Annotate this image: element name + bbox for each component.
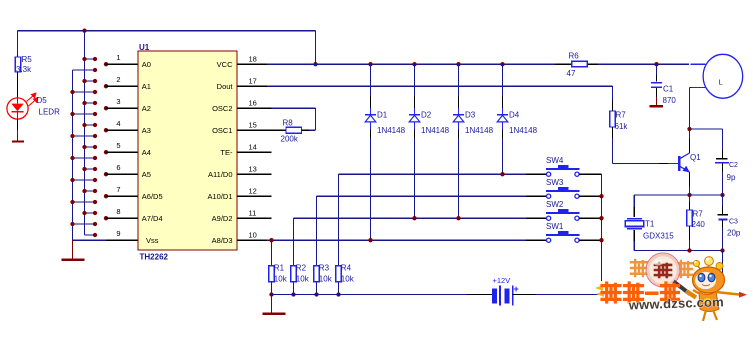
pin number 15	[249, 121, 257, 130]
node pin 5 junction	[104, 150, 108, 154]
node junction top rail to jumper column	[82, 28, 86, 32]
diode D2 1N4148	[409, 115, 420, 122]
svg-text:200k: 200k	[281, 135, 299, 144]
diode D1 1N4148	[365, 115, 376, 122]
wire pin 13 stub	[237, 173, 271, 175]
label 870 value of C1	[663, 96, 677, 105]
switch SW1	[526, 231, 602, 242]
wire pin 7 stub	[106, 195, 138, 197]
svg-text:D2: D2	[421, 111, 432, 120]
pin name OSC2	[212, 104, 232, 113]
wire TE pin 14	[237, 151, 271, 153]
svg-text:SW2: SW2	[546, 200, 564, 209]
wire OSC2 pin 16	[237, 108, 315, 130]
wire Q1 collector lead	[689, 129, 691, 153]
label C1	[663, 85, 674, 94]
label R7 bias	[616, 111, 627, 120]
svg-text:T1: T1	[645, 220, 655, 229]
label SW4	[546, 156, 564, 165]
svg-text:3.3k: 3.3k	[16, 65, 32, 74]
switch SW4	[526, 165, 602, 176]
label T1	[645, 220, 655, 229]
label 61k value	[615, 122, 629, 131]
capacitor C3	[718, 195, 728, 251]
wire R1 column	[271, 240, 273, 294]
svg-text:A5: A5	[142, 170, 151, 179]
svg-text:A2: A2	[142, 104, 151, 113]
wire pin 1 stub	[106, 63, 138, 65]
node D1 bottom junction	[368, 238, 372, 242]
wire R7 column (bias)	[612, 86, 614, 111]
wire pin 6 stub	[106, 173, 138, 175]
wire jumper row 5 (VCC side)	[82, 101, 97, 105]
svg-text:10k: 10k	[274, 275, 288, 284]
ground below C1	[650, 97, 663, 106]
label 10k value of R3	[319, 275, 333, 284]
pin number 16	[249, 99, 257, 108]
ground below jumper matrix	[62, 240, 85, 260]
diode D3 1N4148	[453, 115, 464, 122]
pin number 12	[249, 187, 257, 196]
node D3 bottom junction	[456, 216, 460, 220]
label 9p value of C2	[727, 173, 736, 182]
label 3.3k value of R5	[16, 65, 32, 74]
svg-text:11: 11	[249, 209, 257, 218]
pin number 5	[116, 141, 120, 150]
wire bottom rail right	[513, 294, 602, 296]
wire L bottom tap	[690, 88, 706, 130]
wire R7 to Q1 base	[613, 127, 679, 164]
LED D5 light arrows	[27, 93, 38, 106]
resistor R1	[269, 266, 275, 282]
label D5	[37, 96, 48, 105]
pin name A7/D4	[142, 214, 163, 223]
svg-text:GDX315: GDX315	[643, 232, 674, 241]
node junction top rail to pin 18	[313, 62, 317, 66]
wire jumper row 17 (VCC side)	[85, 233, 98, 237]
wire jumper matrix VCC column	[84, 31, 86, 235]
svg-text:13: 13	[249, 165, 257, 174]
node D4 bottom junction	[500, 172, 504, 176]
wire pin 2 stub	[106, 85, 138, 87]
svg-text:D3: D3	[465, 111, 476, 120]
resistor R8	[286, 127, 302, 133]
resistor R4	[336, 266, 342, 282]
node pin 6 junction	[104, 172, 108, 176]
node VCC rail junction D4	[500, 62, 504, 66]
ground below LED D5	[12, 130, 24, 142]
label SW1	[546, 222, 564, 231]
wire pin 11 stub	[237, 217, 271, 219]
svg-text:C2: C2	[729, 162, 738, 169]
node R4 bottom junction	[336, 292, 340, 296]
pin name A10/D1	[207, 192, 232, 201]
node pin 3 junction	[104, 106, 108, 110]
label 1N4148 value of D3	[465, 126, 494, 135]
label 200k value of R8	[281, 135, 299, 144]
svg-text:+: +	[514, 284, 519, 294]
node VCC rail junction D2	[412, 62, 416, 66]
node R3 bottom junction	[314, 292, 318, 296]
svg-text:1: 1	[116, 53, 120, 62]
node R1 bottom junction	[269, 292, 273, 296]
pin number 11	[249, 209, 257, 218]
resistor R6	[572, 61, 588, 66]
wire data row SW1 from pin 10	[237, 239, 526, 241]
svg-text:10: 10	[249, 231, 257, 240]
wire OSC1 pin 15	[237, 129, 286, 131]
svg-text:1N4148: 1N4148	[509, 126, 538, 135]
pin number 4	[116, 119, 120, 128]
wire jumper row 14 (GND side)	[70, 200, 97, 204]
wire jumper row 4 (GND side)	[70, 90, 97, 94]
wire jumper row 7 (VCC side)	[82, 123, 97, 127]
svg-text:TH2262: TH2262	[140, 252, 169, 261]
label 47 value of R6	[567, 69, 576, 78]
wire jumper row 10 (GND side)	[70, 156, 97, 160]
wire jumper row 9 (VCC side)	[82, 145, 97, 149]
wire R2 column	[293, 218, 295, 294]
svg-text:240: 240	[692, 220, 706, 229]
wire R4 column	[338, 174, 340, 294]
node VCC rail junction D1	[368, 62, 372, 66]
label U1	[139, 43, 150, 52]
svg-text:Vss: Vss	[146, 236, 159, 245]
svg-text:3: 3	[116, 97, 120, 106]
wire R7 240 column	[689, 195, 691, 210]
pin name A4	[142, 148, 151, 157]
svg-text:R5: R5	[22, 55, 33, 64]
pin name Dout	[217, 82, 234, 91]
wire R5 to LED	[17, 72, 19, 99]
pin name A6/D5	[142, 192, 163, 201]
svg-text:7: 7	[116, 185, 120, 194]
node C2 C3 junction	[720, 193, 724, 197]
label C3	[729, 219, 738, 226]
svg-text:8: 8	[116, 207, 120, 216]
wire T1 top lead	[633, 195, 635, 217]
svg-text:6: 6	[116, 163, 120, 172]
pin name A0	[142, 60, 151, 69]
label LEDR	[39, 108, 61, 117]
label 240 value	[692, 220, 706, 229]
svg-text:A1: A1	[142, 82, 151, 91]
svg-text:OSC1: OSC1	[212, 126, 232, 135]
svg-text:D1: D1	[377, 111, 388, 120]
svg-text:14: 14	[249, 143, 257, 152]
svg-text:5: 5	[116, 141, 120, 150]
label R3	[319, 263, 330, 272]
svg-text:SW1: SW1	[546, 222, 564, 231]
label 10k value of R2	[296, 275, 310, 284]
node VCC rail junction D3	[456, 62, 460, 66]
svg-text:870: 870	[663, 96, 677, 105]
capacitor C2	[715, 150, 729, 195]
capacitor C1	[651, 64, 662, 97]
svg-text:A7/D4: A7/D4	[142, 214, 163, 223]
label R2	[296, 263, 307, 272]
wire R5 top lead	[17, 31, 19, 58]
svg-text:R4: R4	[341, 263, 352, 272]
pin number 8	[116, 207, 120, 216]
svg-text:U1: U1	[139, 43, 150, 52]
svg-text:OSC2: OSC2	[212, 104, 232, 113]
svg-text:2: 2	[116, 75, 120, 84]
svg-text:LEDR: LEDR	[39, 108, 61, 117]
pin name Vss	[146, 236, 159, 245]
wire data row SW2	[294, 217, 527, 219]
wire pin 8 stub	[106, 217, 138, 219]
pin number 6	[116, 163, 120, 172]
battery +12V	[492, 285, 513, 305]
pin number 17	[249, 77, 257, 86]
pin number 7	[116, 185, 120, 194]
label R6	[569, 52, 580, 61]
node key bus junction y196	[599, 194, 603, 198]
svg-text:R2: R2	[296, 263, 307, 272]
svg-text:18: 18	[249, 55, 257, 64]
resistor R2	[291, 266, 297, 282]
svg-text:61k: 61k	[615, 122, 629, 131]
wire jumper row 3 (VCC side)	[82, 79, 97, 83]
wire jumper row 16 (GND side)	[70, 222, 97, 226]
svg-text:SW4: SW4	[546, 156, 564, 165]
svg-text:12: 12	[249, 187, 257, 196]
svg-text:D5: D5	[37, 96, 48, 105]
wire T1 bottom lead	[633, 230, 635, 251]
pin number 3	[116, 97, 120, 106]
wire C3 column down	[722, 251, 724, 274]
pin name TE-	[220, 148, 233, 157]
svg-text:1N4148: 1N4148	[377, 126, 406, 135]
svg-text:VCC: VCC	[217, 60, 233, 69]
pin name A9/D2	[212, 214, 233, 223]
svg-text:17: 17	[249, 77, 257, 86]
svg-text:R6: R6	[569, 52, 580, 61]
svg-text:A10/D1: A10/D1	[207, 192, 232, 201]
wire data row SW4	[339, 173, 527, 175]
svg-text:10k: 10k	[341, 275, 355, 284]
wire emitter rail	[634, 194, 722, 196]
wire jumper matrix GND column	[72, 70, 74, 240]
label SW2	[546, 200, 564, 209]
diode D4 1N4148	[497, 115, 508, 122]
node collector junction	[687, 127, 691, 131]
wire jumper row 12 (GND side)	[70, 178, 97, 182]
node C3 bottom junction	[720, 248, 724, 252]
svg-text:A6/D5: A6/D5	[142, 192, 163, 201]
label SW3	[546, 178, 564, 187]
svg-text:SW3: SW3	[546, 178, 564, 187]
svg-text:10k: 10k	[296, 275, 310, 284]
pin number 2	[116, 75, 120, 84]
svg-text:A3: A3	[142, 126, 151, 135]
node key bus junction y240	[599, 238, 603, 242]
label 1N4148 value of D4	[509, 126, 538, 135]
node R2 bottom junction	[291, 292, 295, 296]
label R1	[274, 263, 285, 272]
svg-text:R8: R8	[283, 119, 294, 128]
svg-text:+12V: +12V	[493, 276, 511, 285]
svg-text:Dout: Dout	[217, 82, 234, 91]
switch SW3	[526, 187, 602, 198]
label TH2262	[140, 252, 169, 261]
wire R6 leads	[556, 63, 599, 65]
label L	[719, 78, 723, 87]
wire jumper row 11 (VCC side)	[82, 167, 97, 171]
wire jumper row 2 (GND side)	[73, 68, 98, 72]
label D1	[377, 111, 388, 120]
label 1N4148 value of D2	[421, 126, 450, 135]
ground below bottom rail	[263, 295, 286, 314]
node pin 7 junction	[104, 194, 108, 198]
inductor L antenna coil	[703, 54, 743, 98]
label R8	[283, 119, 294, 128]
pin name A2	[142, 104, 151, 113]
wire D2 column	[414, 64, 416, 218]
label battery plus sign	[514, 284, 519, 294]
wire jumper row 1 (VCC side)	[82, 57, 97, 61]
label D4	[509, 111, 520, 120]
label +12V	[493, 276, 511, 285]
label R5	[22, 55, 33, 64]
wire Vss pin 9 stub	[73, 239, 138, 241]
transistor Q1	[679, 153, 690, 172]
wire pin 4 stub	[106, 129, 138, 131]
wire D3 column	[458, 64, 460, 218]
svg-text:C1: C1	[663, 85, 674, 94]
wire jumper row 13 (VCC side)	[82, 189, 97, 193]
wire LED cathode to ground	[17, 119, 19, 130]
node pin 8 junction	[104, 216, 108, 220]
pin number 10	[249, 231, 257, 240]
node C1 junction	[654, 62, 658, 66]
svg-text:A0: A0	[142, 60, 151, 69]
wire Dout net pin 17	[237, 85, 612, 87]
wire R8 to OSC loop corner	[302, 129, 316, 131]
pin name A11/D0	[208, 170, 232, 179]
wire D4 column	[502, 64, 504, 174]
node R7 bottom junction	[687, 248, 691, 252]
switch SW2	[526, 209, 602, 220]
wire data row SW3	[317, 195, 527, 197]
wire pin 12 stub	[237, 195, 271, 197]
label GDX315 value of T1	[643, 232, 674, 241]
wire jumper row 15 (VCC side)	[82, 211, 97, 215]
svg-text:4: 4	[116, 119, 120, 128]
label 20p value of C3	[727, 229, 741, 238]
svg-text:20p: 20p	[727, 229, 741, 238]
svg-text:R7: R7	[616, 111, 627, 120]
node pin 4 junction	[104, 128, 108, 132]
svg-text:L: L	[719, 78, 723, 87]
wire key bus	[601, 174, 603, 294]
svg-text:R7: R7	[693, 210, 704, 219]
resistor R7 bias	[610, 111, 616, 127]
pin number 1	[116, 53, 120, 62]
wire jumper row 6 (GND side)	[70, 112, 97, 116]
label R7 240	[693, 210, 704, 219]
svg-text:Q1: Q1	[690, 153, 701, 162]
svg-text:1N4148: 1N4148	[465, 126, 494, 135]
wire VCC top rail	[18, 31, 316, 65]
wire oscillator bottom rail	[634, 250, 722, 252]
svg-text:9: 9	[116, 229, 120, 238]
label 1N4148 value of D1	[377, 126, 406, 135]
pin name A8/D3	[212, 236, 233, 245]
label R4	[341, 263, 352, 272]
svg-text:15: 15	[249, 121, 257, 130]
label D2	[421, 111, 432, 120]
node pin 1 junction	[104, 62, 108, 66]
resistor R5	[15, 57, 21, 72]
wire bottom rail left	[272, 294, 493, 296]
pin name A3	[142, 126, 151, 135]
svg-text:C3: C3	[729, 219, 738, 226]
pin name OSC1	[212, 126, 232, 135]
wire jumper row 8 (GND side)	[70, 134, 97, 138]
node pin10 row junction	[269, 238, 273, 242]
pin number 13	[249, 165, 257, 174]
svg-text:A8/D3: A8/D3	[212, 236, 233, 245]
watermark dzsc logo	[595, 253, 747, 321]
svg-text:47: 47	[567, 69, 576, 78]
wire R7 240 bottom lead	[689, 226, 691, 251]
svg-text:A4: A4	[142, 148, 151, 157]
node emitter rail junction	[687, 193, 691, 197]
label C2	[729, 162, 738, 169]
wire VCC net pin 18	[237, 63, 705, 65]
wire Q1 emitter lead	[689, 172, 691, 195]
svg-text:9p: 9p	[727, 173, 736, 182]
svg-text:R1: R1	[274, 263, 285, 272]
label 10k value of R1	[274, 275, 288, 284]
pin name A5	[142, 170, 151, 179]
pin number 14	[249, 143, 257, 152]
pin name VCC	[217, 60, 233, 69]
pin number 18	[249, 55, 257, 64]
wire R3 column	[316, 196, 318, 294]
svg-text:TE-: TE-	[220, 148, 233, 157]
svg-text:1N4148: 1N4148	[421, 126, 450, 135]
svg-text:R3: R3	[319, 263, 330, 272]
label 10k value of R4	[341, 275, 355, 284]
svg-text:D4: D4	[509, 111, 520, 120]
svg-text:A9/D2: A9/D2	[212, 214, 233, 223]
LED D5	[7, 98, 28, 119]
resistor R3	[314, 266, 320, 282]
node D2 bottom junction	[412, 216, 416, 220]
pin number 9	[116, 229, 120, 238]
node key bus junction y218	[599, 216, 603, 220]
svg-text:16: 16	[249, 99, 257, 108]
svg-text:A11/D0: A11/D0	[208, 170, 232, 179]
pin name A1	[142, 82, 151, 91]
svg-text:10k: 10k	[319, 275, 333, 284]
wire pin 3 stub	[106, 107, 138, 109]
op-amp U1 TH2262 encoder IC body	[138, 51, 237, 250]
wire D1 column	[370, 64, 372, 240]
label Q1	[690, 153, 701, 162]
label D3	[465, 111, 476, 120]
resistor R7 240	[687, 210, 693, 226]
node pin 2 junction	[104, 84, 108, 88]
resonator T1 GDX315	[625, 219, 644, 229]
wire pin 5 stub	[106, 151, 138, 153]
wire collector node to C2	[690, 129, 723, 150]
